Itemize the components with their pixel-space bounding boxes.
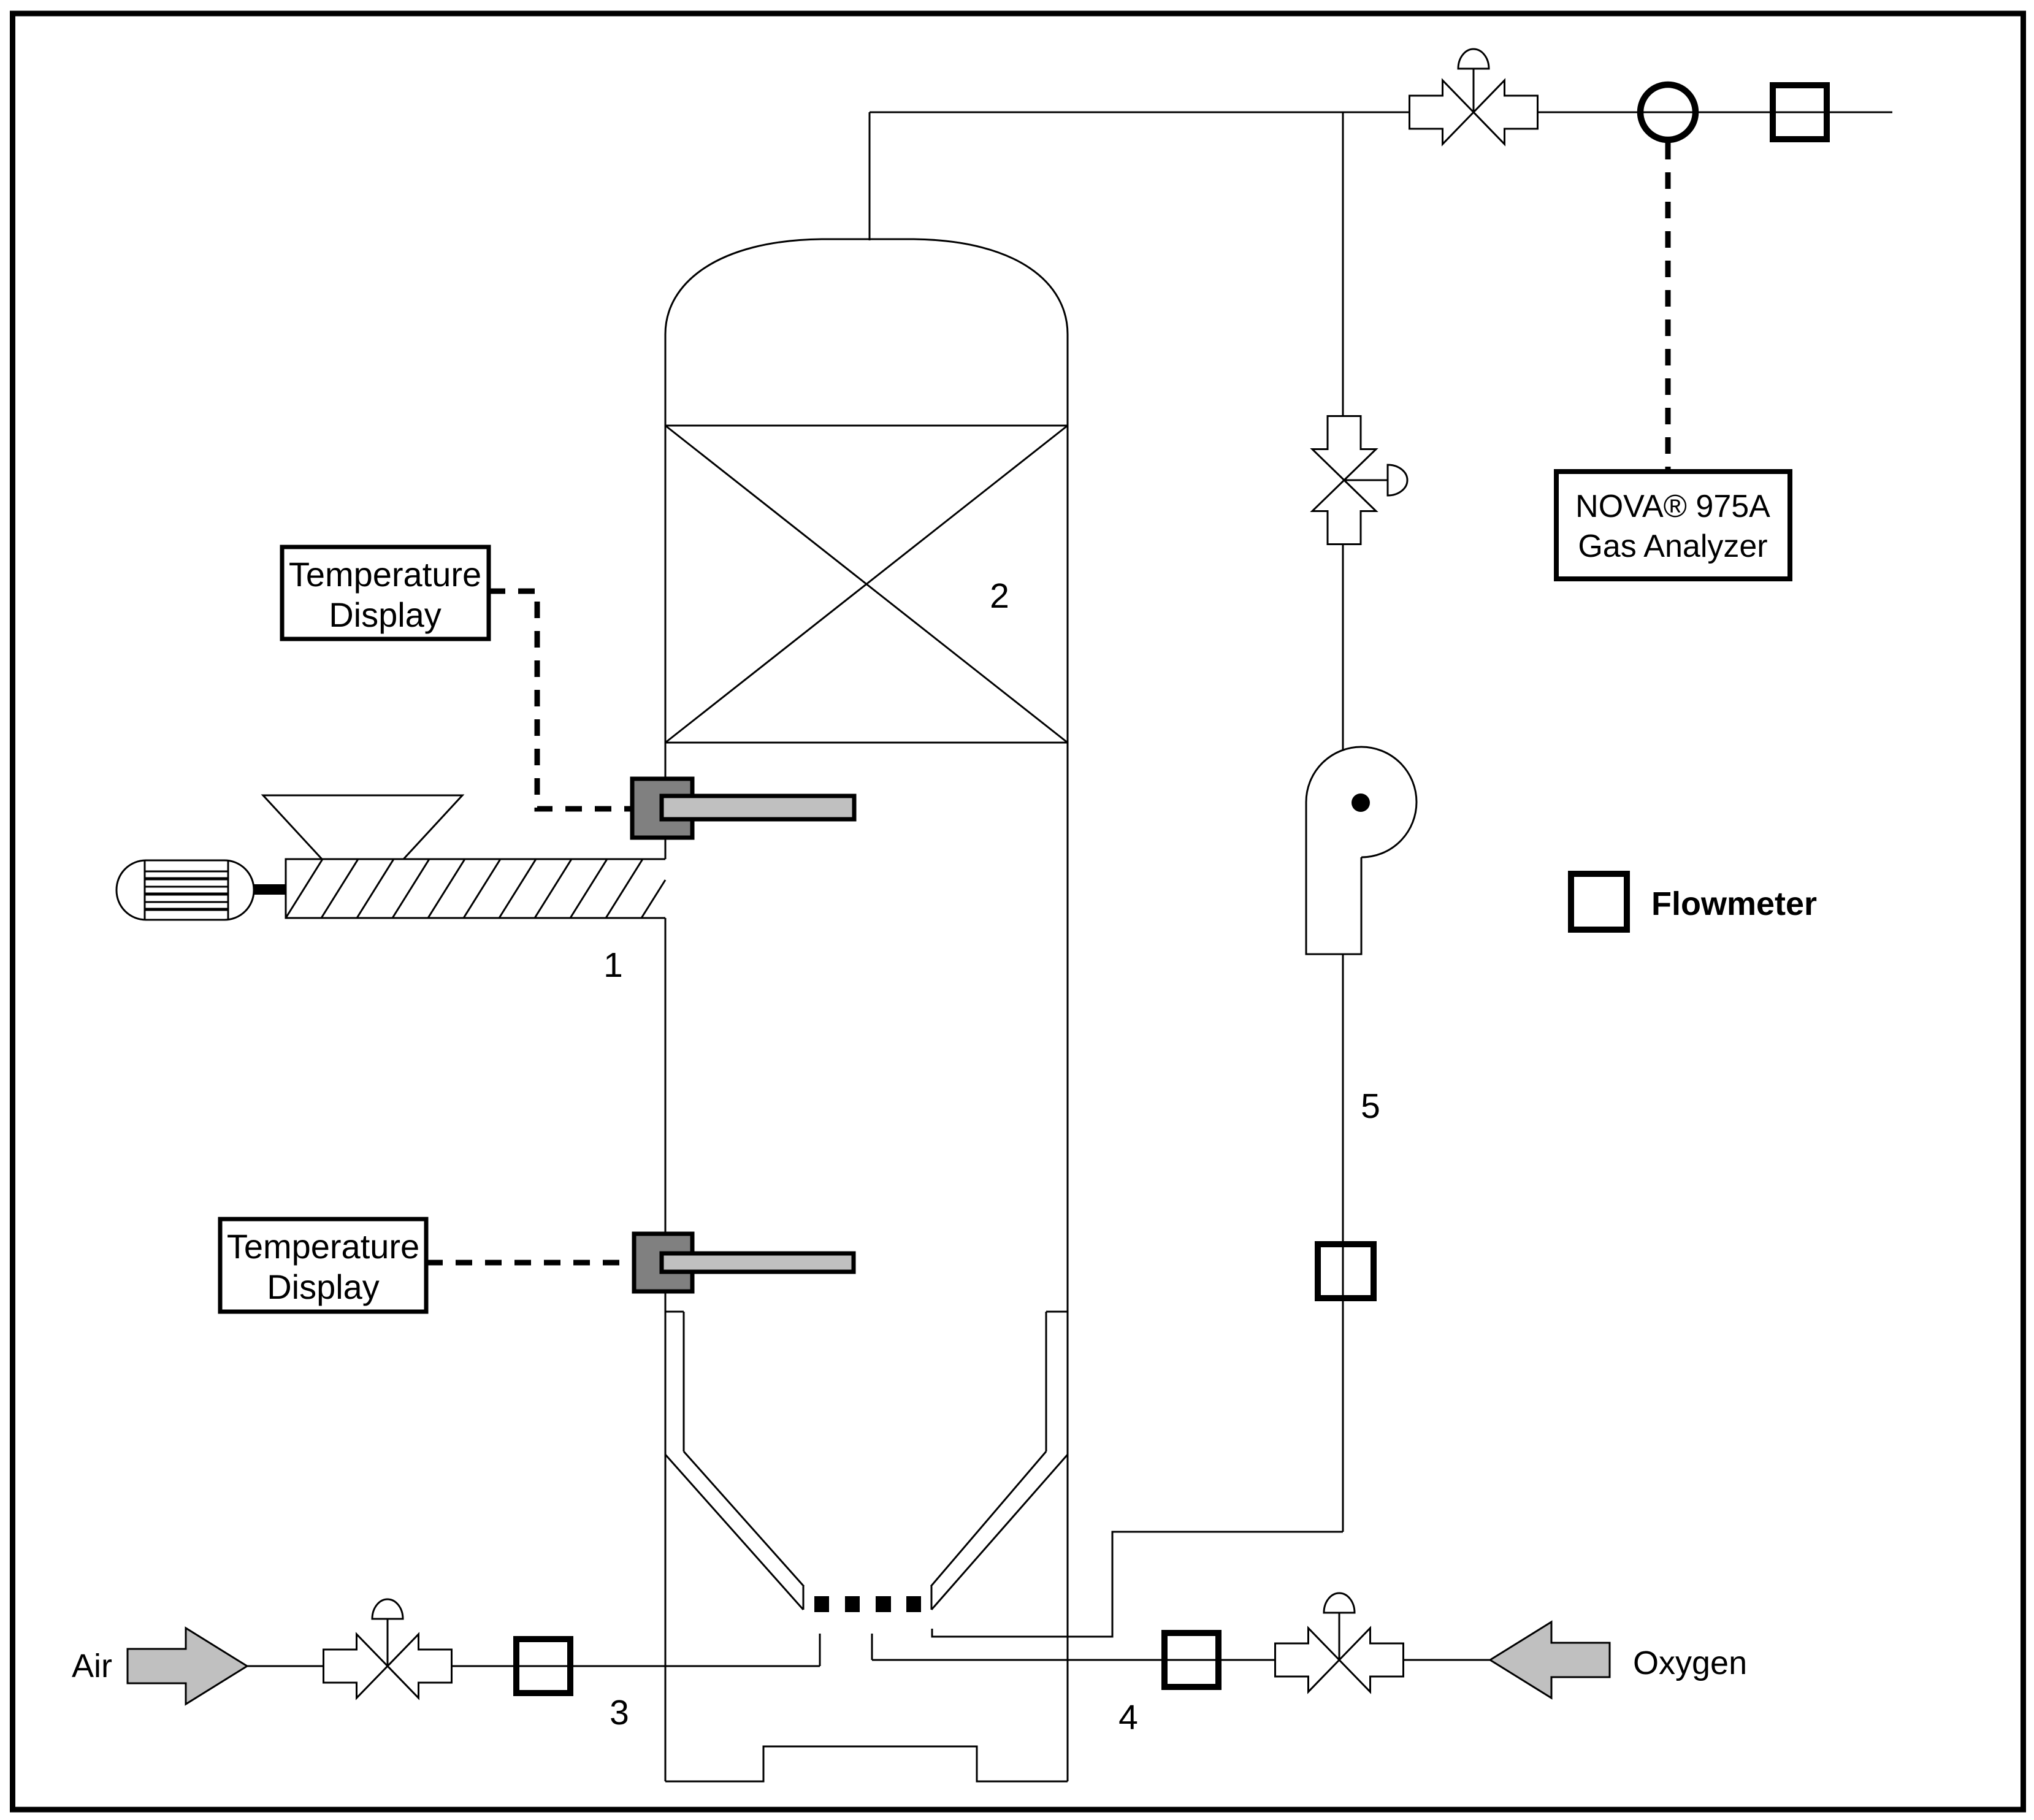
signal wire TD2 dashed <box>426 1260 634 1266</box>
svg-text:3: 3 <box>610 1693 629 1732</box>
svg-text:Display: Display <box>329 595 442 634</box>
signal wire to gas analyzer dashed <box>1665 143 1671 471</box>
cone left tip edge <box>803 1586 805 1610</box>
packed bed X diagonal 2 <box>665 426 1068 743</box>
svg-text:Air: Air <box>72 1648 112 1684</box>
inlet nozzle right stub <box>871 1634 873 1660</box>
feeder motor M1 <box>117 860 254 920</box>
temperature display box TD1 <box>282 547 489 639</box>
control valve V1 on exhaust line <box>1410 49 1538 144</box>
vessel bottom skirt <box>665 1746 1068 1781</box>
inner liner step right <box>1046 1311 1068 1313</box>
inner liner left wall <box>683 1312 685 1451</box>
wire: reactor top pipe <box>869 112 871 240</box>
wire: air line <box>247 1665 820 1667</box>
svg-text:1: 1 <box>603 946 623 985</box>
flowmeter FM1 on exhaust line <box>1773 85 1827 139</box>
wire: top exhaust line <box>870 112 1892 113</box>
svg-text:2: 2 <box>990 576 1009 616</box>
motor shaft <box>254 884 286 895</box>
cone left outer <box>665 1455 803 1610</box>
thermocouple rod T1 <box>662 796 854 819</box>
wire: oxygen line <box>872 1659 1490 1661</box>
cone right tip edge <box>931 1586 933 1610</box>
packed bed section 2: top line <box>665 425 1068 427</box>
blower B1 <box>1306 747 1417 954</box>
thermocouple block T2 <box>634 1234 692 1291</box>
thermocouple block T1 <box>632 779 692 838</box>
packed bed X diagonal 1 <box>665 426 1068 743</box>
svg-text:Temperature: Temperature <box>227 1227 419 1266</box>
svg-text:Gas Analyzer: Gas Analyzer <box>1578 529 1767 564</box>
feed hopper <box>263 795 462 859</box>
reactor left wall <box>665 334 667 859</box>
cone right inner <box>931 1451 1046 1586</box>
control valve V4 on oxygen line <box>1275 1593 1404 1692</box>
cone left inner <box>684 1451 804 1586</box>
flowmeter FM3 on air line <box>516 1639 570 1693</box>
svg-text:Flowmeter: Flowmeter <box>1651 885 1817 922</box>
reactor right wall <box>1067 334 1069 1781</box>
inlet nozzle left stub <box>819 1634 821 1666</box>
distributor plate dashed squares <box>814 1596 829 1612</box>
wire: valve to blower <box>1342 542 1344 751</box>
inner liner right wall <box>1046 1312 1047 1451</box>
oxygen inlet arrow <box>1490 1622 1610 1698</box>
control valve V3 on air line <box>324 1599 452 1698</box>
temperature display box TD2 <box>220 1219 426 1312</box>
svg-text:Temperature: Temperature <box>289 555 481 594</box>
cone right outer <box>931 1455 1068 1610</box>
reactor vessel dome <box>665 239 1068 334</box>
sample port circle <box>1640 85 1696 140</box>
legend flowmeter square <box>1571 874 1627 930</box>
NOVA 975A gas analyzer box <box>1556 472 1790 579</box>
inner liner step left <box>665 1311 684 1313</box>
flowmeter FM4 on oxygen line <box>1164 1633 1218 1687</box>
screw flights hatch <box>286 859 665 918</box>
svg-text:5: 5 <box>1361 1087 1380 1126</box>
svg-text:Display: Display <box>267 1267 380 1306</box>
wire: recycle horizontal at y 2498 <box>932 1532 1343 1637</box>
flowmeter FM2 on recycle line <box>1318 1244 1374 1298</box>
wire: recycle branch vertical to valve <box>1342 112 1344 417</box>
svg-text:NOVA® 975A: NOVA® 975A <box>1575 489 1770 524</box>
control valve V2 on recycle line <box>1312 416 1407 545</box>
wire: blower to flowmeter and down <box>1342 954 1344 1532</box>
svg-text:Oxygen: Oxygen <box>1633 1645 1747 1681</box>
screw conveyor housing <box>286 859 665 918</box>
packed bed section 2: bottom line <box>665 742 1068 744</box>
thermocouple rod T2 <box>662 1253 854 1272</box>
air inlet arrow <box>128 1628 247 1704</box>
signal wire TD1 dashed <box>489 591 632 809</box>
svg-text:4: 4 <box>1118 1698 1138 1737</box>
